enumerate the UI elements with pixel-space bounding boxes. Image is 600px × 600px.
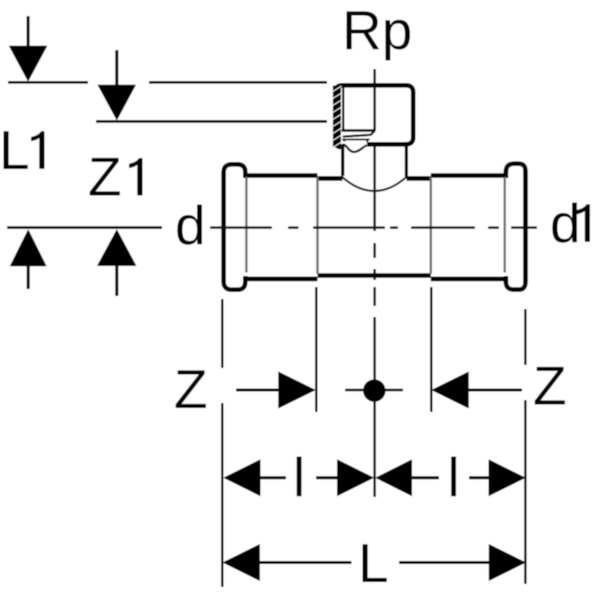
svg-text:Z: Z [174, 358, 208, 420]
svg-text:Rp: Rp [342, 0, 412, 61]
svg-text:d: d [550, 192, 581, 254]
svg-text:d: d [175, 194, 206, 256]
svg-text:L: L [358, 532, 389, 594]
svg-text:Z: Z [533, 355, 567, 417]
svg-text:l: l [293, 446, 305, 508]
svg-text:L: L [0, 119, 30, 181]
svg-text:Z: Z [88, 146, 122, 208]
svg-text:l: l [448, 446, 460, 508]
